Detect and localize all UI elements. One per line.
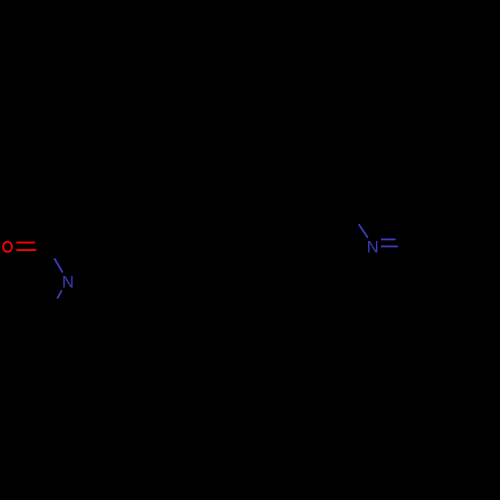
svg-text:N: N: [62, 274, 74, 292]
svg-text:N: N: [367, 239, 379, 257]
